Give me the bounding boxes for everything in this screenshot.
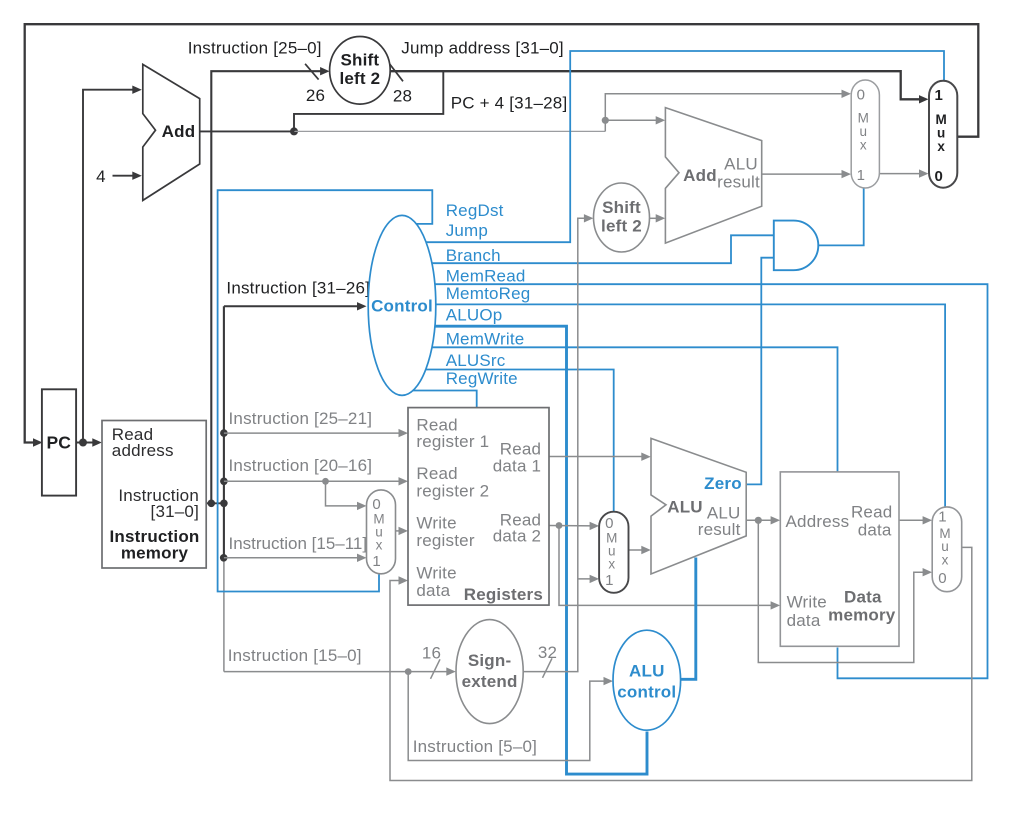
junction PC output [79,439,87,447]
wire Jump [402,51,944,242]
svg-text:PC + 4 [31–28]: PC + 4 [31–28] [451,94,568,113]
wire branch mux output to jump mux [879,169,928,177]
svg-text:MemRead: MemRead [446,267,526,286]
svg-text:1: 1 [857,167,865,184]
control unit [368,215,436,395]
svg-text:ALU: ALU [629,662,665,681]
wire Instruction[20-16] to read register 2 [224,477,408,485]
svg-text:MemWrite: MemWrite [446,330,525,349]
svg-text:1: 1 [938,509,946,526]
svg-text:16: 16 [422,644,441,663]
junction ALU result [755,517,762,524]
svg-text:0: 0 [934,168,942,185]
junction Instruction[25-21] [220,429,228,437]
label PC + 4 [31-28] [451,94,568,113]
svg-text:Instruction [20–16]: Instruction [20–16] [229,456,373,475]
svg-text:ALUOp: ALUOp [446,306,503,325]
wire jump address to jump mux [390,71,929,103]
wire PC up to Add [83,86,142,443]
svg-text:Shift: Shift [602,198,641,217]
svg-text:Zero: Zero [704,474,742,493]
label ALUOp [446,306,503,325]
svg-text:0: 0 [605,515,613,532]
memtoreg mux [932,507,962,592]
junction PC+4 to second Add [602,117,609,124]
svg-text:x: x [860,138,867,153]
svg-text:Instruction [5–0]: Instruction [5–0] [413,737,537,756]
svg-text:data 1: data 1 [493,457,541,476]
wire RegWrite [402,391,477,409]
svg-text:1: 1 [934,87,942,104]
slash 26 on Instruction[25-0] [305,64,319,80]
svg-text:Address: Address [786,512,850,531]
junction Instruction[15-0] split [405,668,412,675]
svg-text:Instruction [15–0]: Instruction [15–0] [228,646,362,665]
label 16 [422,644,441,663]
svg-text:Jump address [31–0]: Jump address [31–0] [401,38,564,57]
svg-text:x: x [376,538,383,553]
shift left 2 (branch) [594,183,650,252]
svg-text:Add: Add [162,122,196,141]
wire read data to memtoreg mux [899,516,932,524]
svg-text:Read: Read [851,503,892,522]
wire instruction memory output [206,502,224,504]
junction instruction out A [208,500,216,508]
wire PC to instruction memory read address [76,438,102,446]
svg-text:Instruction [31–26]: Instruction [31–26] [226,278,370,297]
svg-text:[31–0]: [31–0] [151,502,199,521]
label MemWrite [446,330,525,349]
svg-text:Sign-: Sign- [468,651,512,670]
wire write-back to registers write data [390,547,972,780]
label Instruction [31-26] [226,278,370,297]
label Instruction [5-0] [413,737,537,756]
svg-text:4: 4 [96,167,106,186]
svg-text:0: 0 [372,496,380,513]
svg-text:26: 26 [306,86,325,105]
svg-text:Data: Data [844,587,882,606]
write-register mux [367,490,396,574]
wire ALU result bypass to memtoreg mux 0 [758,520,932,662]
wire Instruction[15-11] to write-register mux 1 [224,554,367,562]
wire PC+4 thin to right [294,130,605,132]
svg-text:PC: PC [46,433,71,453]
svg-text:memory: memory [828,606,896,625]
svg-text:control: control [617,683,676,702]
label MemRead [446,267,526,286]
svg-text:data: data [787,611,821,630]
wire MemRead [402,284,988,678]
svg-text:MemtoReg: MemtoReg [446,284,531,303]
wire read data 1 to ALU [549,453,651,461]
svg-text:left 2: left 2 [601,217,642,236]
junction Instruction[20-16] [220,478,228,486]
svg-text:Shift: Shift [341,51,380,70]
svg-text:Control: Control [371,297,433,316]
wire PC+4 into second Add [605,116,665,124]
wire Branch [402,235,774,263]
ALU [651,438,746,574]
label RegDst [446,201,504,220]
label Instruction [25-0] [188,38,322,57]
wire sign-extend output riser [523,214,593,671]
wire Instruction[25-0] to shift left 2 [211,67,329,503]
label Instruction [15-0] [228,646,362,665]
wire ALUOp [402,326,647,774]
wire write-register mux to write register [396,527,409,535]
wire RegDst [218,190,433,591]
svg-text:Write: Write [416,564,456,583]
label 26 [306,86,325,105]
wire Add output PC+4 [200,130,294,132]
svg-text:x: x [942,553,949,568]
svg-text:Read: Read [500,439,541,458]
svg-text:extend: extend [462,672,518,691]
svg-text:ALU: ALU [667,498,703,517]
svg-text:memory: memory [121,544,189,563]
label Branch [446,246,501,265]
svg-text:Branch: Branch [446,246,501,265]
svg-text:RegWrite: RegWrite [446,369,518,388]
svg-text:x: x [937,139,945,154]
svg-text:register: register [416,531,474,550]
svg-text:ALU: ALU [724,155,758,174]
svg-text:Registers: Registers [464,585,543,604]
instruction memory [102,421,206,569]
wire jump-mux output wrap-around to PC input [25,24,979,447]
wire sign-extend to ALUSrc mux 1 [578,575,599,583]
junction instruction out B [220,500,228,508]
adder Add#1 [143,64,200,200]
label Instruction [25-21] [229,409,373,428]
wire MemtoReg [402,304,945,508]
data memory [780,472,899,646]
shift left 2 (jump) [330,37,391,105]
svg-text:register 1: register 1 [416,432,489,451]
svg-text:Instruction [25–21]: Instruction [25–21] [229,409,373,428]
junction read data 2 split [556,522,563,529]
svg-text:left 2: left 2 [339,69,380,88]
svg-text:Add: Add [683,166,717,185]
svg-text:0: 0 [938,570,946,587]
wire constant 4 into Add [113,172,142,180]
wire ALU control to ALU [681,558,696,680]
svg-text:Instruction [25–0]: Instruction [25–0] [188,38,322,57]
svg-text:register 2: register 2 [416,482,489,501]
svg-text:address: address [112,441,174,460]
wire instruction bus vertical gray [223,558,225,672]
jump mux [929,81,957,188]
svg-text:Instruction [15–11]: Instruction [15–11] [229,534,368,553]
wire AND output to branch mux select [816,187,863,246]
ALUSrc mux [599,512,628,593]
wire ALUSrc mux to ALU [629,546,651,554]
wire Instruction[5-0] to ALU control [408,672,613,761]
sign-extend [456,620,523,724]
svg-text:Write: Write [787,593,827,612]
svg-text:Write: Write [416,514,456,533]
svg-text:28: 28 [393,87,412,106]
svg-text:data: data [858,521,892,540]
svg-text:RegDst: RegDst [446,201,504,220]
adder Add#2 branch target [665,108,761,244]
wire Zero to AND gate [746,258,773,485]
junction Instruction[15-11] [220,554,228,562]
slash 16 [431,659,441,679]
wire ALU result to data memory address [746,516,780,524]
label RegWrite [446,369,518,388]
svg-text:Jump: Jump [446,221,488,240]
label 4 [96,167,106,186]
svg-text:ALUSrc: ALUSrc [446,351,506,370]
svg-text:32: 32 [538,643,557,662]
wire Instruction[31-26] into Control [224,302,367,310]
wire ALUSrc [402,370,614,513]
junction Instruction[20-16] split [322,478,329,485]
svg-text:0: 0 [857,87,865,104]
svg-text:x: x [608,557,615,572]
junction PC+4 split [290,127,298,135]
branch mux [851,80,879,188]
svg-text:result: result [717,173,760,192]
label Instruction [20-16] [229,456,373,475]
wire read data 2 to ALUSrc mux 0 [549,522,599,530]
wire read data 2 to data memory write data [559,526,780,610]
wire PC+4[31-28] elbow up to jump address line [294,71,443,131]
wire MemWrite [402,347,838,473]
label 32 [538,643,557,662]
slash 32 [543,658,553,678]
svg-text:data 2: data 2 [493,527,541,546]
wire Instruction[25-21] to read register 1 [224,429,408,437]
wire PC+4 riser to branch mux [605,90,851,132]
svg-text:1: 1 [605,572,613,589]
svg-text:data: data [416,581,450,600]
svg-text:result: result [698,520,741,539]
label MemtoReg [446,284,531,303]
svg-text:1: 1 [372,553,380,570]
wire Instruction[15-0] to sign-extend [224,667,456,675]
label 28 [393,87,412,106]
AND gate branch [774,221,819,271]
wire shift left 2 to Add [650,214,666,222]
label ALUSrc [446,351,506,370]
ALU control [613,630,681,730]
wire branch target to branch mux [762,170,851,178]
label Jump [446,221,488,240]
PC register [42,389,76,495]
slash 28 on jump address [390,64,404,82]
label Instruction [15-11] [229,534,368,553]
wire instruction bus vertical black [223,306,225,558]
wire Instruction[20-16] to write-register mux 0 [326,481,367,510]
svg-text:Read: Read [416,464,457,483]
label Jump address [31-0] [401,38,564,57]
register file [408,408,549,605]
